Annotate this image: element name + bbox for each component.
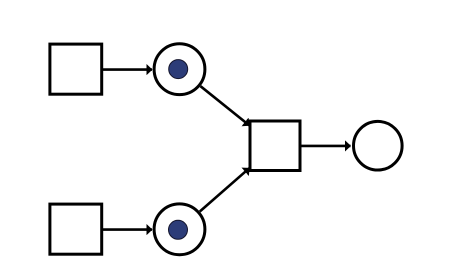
token in P1 <box>169 60 188 79</box>
wire P1 to T3 <box>201 86 250 125</box>
transition T1 (top-left square) <box>50 44 102 94</box>
wire T3 to P3 <box>300 145 351 148</box>
token in P2 <box>169 220 188 239</box>
place P3 (right circle, empty) <box>354 121 403 170</box>
wire T2 to P2 <box>103 228 152 231</box>
transition T3 (middle square) <box>250 121 300 171</box>
wire P2 to T3 <box>200 168 250 211</box>
place P1 (top circle) <box>154 44 205 95</box>
transition T2 (bottom-left square) <box>50 204 102 254</box>
wire T1 to P1 <box>103 68 152 71</box>
place P2 (bottom circle) <box>154 204 205 255</box>
